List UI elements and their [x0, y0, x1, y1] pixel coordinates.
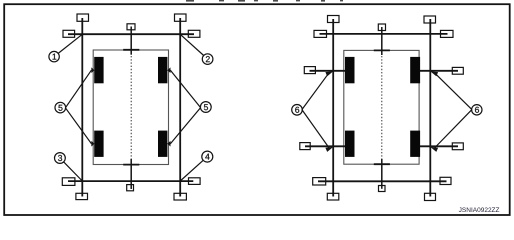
wheel front-left left diagram — [94, 57, 103, 83]
top-center clip box left diagram — [127, 24, 135, 30]
callout circle 6 right — [472, 105, 482, 115]
callout circle 3 — [55, 153, 66, 164]
bottom-left side clip box — [62, 178, 75, 186]
callout 6 left lower pointer — [302, 110, 333, 152]
top-left clip box above corner right diagram — [328, 16, 340, 23]
front center cross mark left diagram — [123, 49, 139, 51]
svg-text:JSNIA0922ZZ: JSNIA0922ZZ — [459, 207, 500, 214]
front axle line left with clip box — [304, 67, 345, 74]
callout 5 left upper pointer — [65, 67, 94, 107]
bottom-right clip box below corner right diagram — [425, 193, 436, 200]
front center cross mark right diagram — [374, 49, 390, 51]
right vertical datum line left diagram — [179, 18, 181, 197]
bottom horizontal datum line right diagram — [318, 180, 447, 182]
wheel rear-right left diagram — [158, 131, 167, 157]
callout circle 6 left — [292, 105, 303, 116]
wheel rear-left right diagram — [345, 131, 355, 157]
top-right side clip box — [188, 30, 200, 37]
callout circle 4 — [202, 151, 213, 162]
callout 5 right lower pointer — [167, 108, 200, 147]
bottom-center clip box left diagram — [127, 185, 134, 191]
rear center cross mark left diagram — [123, 164, 139, 166]
left vertical datum line left diagram — [81, 18, 83, 197]
bottom-left clip box below corner — [76, 193, 88, 199]
bottom-right clip box below corner — [174, 193, 186, 200]
center dotted line left — [130, 56, 132, 159]
callout 5 right upper pointer — [167, 67, 200, 107]
right vertical datum line right diagram — [429, 19, 431, 197]
callout line 1 — [58, 34, 82, 53]
bottom-right side clip box — [189, 178, 201, 185]
rear center cross mark right diagram — [374, 163, 390, 165]
front axle line right with clip box — [420, 67, 463, 74]
callout 6 right upper pointer — [430, 71, 472, 109]
top-left side clip box — [63, 30, 75, 37]
vehicle body outline left — [93, 50, 168, 165]
top horizontal datum line right diagram — [320, 33, 448, 35]
callout circle 5 right — [200, 102, 211, 113]
wheel front-right right diagram — [410, 57, 420, 83]
callout line 2 — [180, 34, 204, 55]
center vertical line bottom left diagram — [130, 159, 132, 189]
callout 5 left lower pointer — [65, 108, 94, 147]
rear axle line right with clip box — [420, 143, 463, 150]
bottom-left side clip box right diagram — [313, 178, 326, 185]
bottom-right side clip box right diagram — [440, 177, 451, 184]
callout circle 2 — [202, 54, 213, 65]
center vertical line top right diagram — [381, 27, 383, 55]
center vertical line top left diagram — [130, 27, 132, 55]
center vertical line bottom right diagram — [381, 159, 383, 189]
top-right clip box above corner — [175, 14, 187, 21]
top-left side clip box right diagram — [314, 30, 327, 37]
callout 6 right lower pointer — [430, 110, 472, 152]
left vertical datum line right diagram — [332, 19, 334, 197]
top-right side clip box right diagram — [441, 30, 454, 37]
bottom horizontal datum line left diagram — [68, 180, 193, 182]
center dotted line right — [381, 56, 383, 159]
callout 6 left upper pointer — [302, 71, 333, 109]
top-left clip box above corner — [77, 14, 89, 21]
wheel front-left right diagram — [345, 57, 355, 83]
rear axle line left with clip box — [300, 143, 345, 150]
callout circle 1 — [49, 51, 59, 61]
top-center clip box right diagram — [378, 24, 385, 31]
top-right clip box above corner right diagram — [424, 16, 436, 23]
bottom-left clip box below corner right diagram — [327, 193, 339, 200]
top horizontal datum line left diagram — [68, 33, 194, 35]
wheel rear-left left diagram — [94, 131, 103, 157]
cropped text remnants top edge — [186, 0, 343, 2]
wheel front-right left diagram — [158, 57, 167, 83]
callout line 4 — [180, 160, 203, 181]
bottom-center clip box right diagram — [379, 186, 386, 192]
vehicle body outline right — [344, 50, 419, 164]
wheel rear-right right diagram — [410, 131, 420, 157]
callout circle 5 left — [55, 102, 66, 113]
callout line 3 — [64, 162, 83, 181]
